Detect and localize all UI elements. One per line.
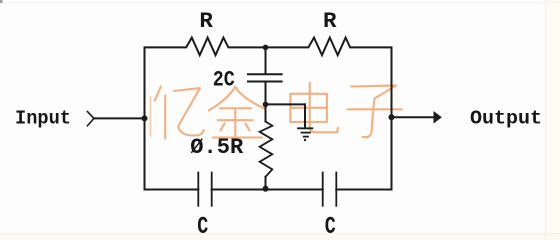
svg-text:Ø.5R: Ø.5R	[190, 134, 243, 160]
svg-text:Output: Output	[470, 108, 542, 130]
svg-text:2C: 2C	[213, 67, 235, 93]
svg-text:R: R	[199, 8, 213, 34]
svg-text:R: R	[323, 8, 337, 34]
svg-text:C: C	[197, 214, 208, 240]
svg-text:Input: Input	[15, 107, 71, 129]
svg-text:C: C	[325, 214, 336, 240]
